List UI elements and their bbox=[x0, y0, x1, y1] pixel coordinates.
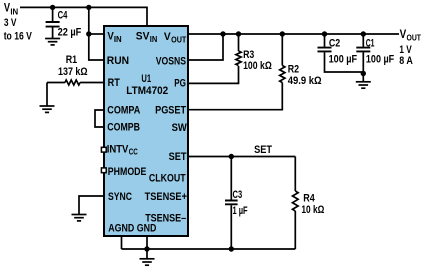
svg-text:8 A: 8 A bbox=[399, 55, 413, 67]
svg-text:R2: R2 bbox=[288, 64, 299, 76]
svg-text:137 kΩ: 137 kΩ bbox=[58, 66, 88, 78]
svg-text:TSENSE–: TSENSE– bbox=[145, 212, 186, 224]
svg-text:R1: R1 bbox=[66, 54, 77, 66]
svg-text:RUN: RUN bbox=[107, 55, 129, 67]
svg-text:CLKOUT: CLKOUT bbox=[149, 173, 186, 185]
svg-text:1 µF: 1 µF bbox=[233, 205, 248, 217]
svg-text:SV: SV bbox=[136, 31, 150, 43]
svg-text:10 kΩ: 10 kΩ bbox=[301, 204, 324, 216]
svg-text:OUT: OUT bbox=[171, 35, 186, 44]
svg-text:SET: SET bbox=[169, 151, 187, 163]
svg-text:V: V bbox=[4, 3, 10, 15]
svg-text:C2: C2 bbox=[329, 37, 340, 49]
svg-text:PG: PG bbox=[174, 77, 186, 89]
svg-text:LTM4702: LTM4702 bbox=[126, 85, 168, 97]
svg-text:OUT: OUT bbox=[407, 33, 422, 43]
svg-text:SET: SET bbox=[254, 144, 272, 156]
svg-text:COMPB: COMPB bbox=[107, 122, 140, 134]
svg-text:INTV: INTV bbox=[107, 143, 129, 155]
svg-text:RT: RT bbox=[108, 77, 120, 89]
svg-text:U1: U1 bbox=[141, 73, 151, 85]
svg-text:100 µF: 100 µF bbox=[366, 53, 395, 65]
svg-text:22 µF: 22 µF bbox=[58, 26, 82, 38]
svg-text:TSENSE+: TSENSE+ bbox=[145, 191, 187, 203]
svg-text:C4: C4 bbox=[58, 9, 68, 21]
svg-text:3 V: 3 V bbox=[4, 17, 17, 29]
svg-text:V: V bbox=[400, 29, 407, 41]
svg-text:C3: C3 bbox=[233, 189, 243, 201]
svg-text:VOSNS: VOSNS bbox=[156, 56, 186, 68]
svg-text:CC: CC bbox=[129, 148, 138, 157]
svg-text:COMPA: COMPA bbox=[107, 105, 140, 117]
svg-text:PGSET: PGSET bbox=[155, 105, 186, 117]
svg-text:IN: IN bbox=[114, 35, 122, 44]
svg-text:SW: SW bbox=[172, 122, 188, 134]
svg-text:IN: IN bbox=[150, 35, 158, 44]
svg-text:100 µF: 100 µF bbox=[329, 53, 358, 65]
svg-text:C1: C1 bbox=[366, 38, 375, 50]
svg-text:SYNC: SYNC bbox=[108, 191, 132, 203]
svg-text:AGND GND: AGND GND bbox=[108, 223, 156, 235]
svg-text:IN: IN bbox=[10, 7, 18, 17]
svg-text:100 kΩ: 100 kΩ bbox=[243, 60, 272, 72]
svg-text:49.9 kΩ: 49.9 kΩ bbox=[288, 75, 322, 87]
svg-text:R4: R4 bbox=[303, 192, 315, 204]
svg-text:PHMODE: PHMODE bbox=[108, 166, 147, 178]
svg-text:to 16 V: to 16 V bbox=[4, 30, 33, 42]
